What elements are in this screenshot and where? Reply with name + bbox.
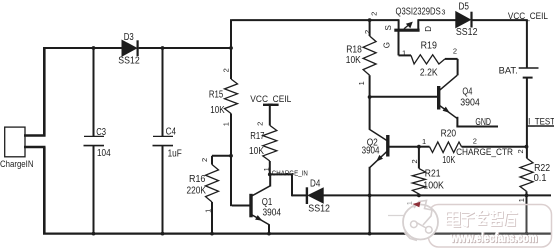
junction <box>210 232 214 236</box>
svg-text:2: 2 <box>370 12 379 16</box>
junction <box>368 95 372 99</box>
svg-text:220K: 220K <box>187 185 207 196</box>
capacitor C3 <box>84 135 104 137</box>
wire upper rail to Q3 source <box>232 19 399 21</box>
svg-text:10K: 10K <box>442 155 455 166</box>
wire C4 top <box>162 47 164 136</box>
wire Q2 base to R20/R21 node <box>388 146 420 148</box>
svg-text:S: S <box>384 25 393 30</box>
svg-text:2: 2 <box>453 47 457 56</box>
wire CHARGE_IN horizontal <box>269 173 293 175</box>
junction <box>368 18 372 22</box>
wire R17 bottom to CHARGE_IN node <box>269 161 271 175</box>
diode D3 <box>122 40 137 56</box>
junction <box>161 232 165 236</box>
wire R16 top stub <box>211 156 213 165</box>
wire R21 top stub <box>418 147 420 169</box>
transistor Q3 P-MOSFET body <box>394 29 419 32</box>
svg-text:Q4: Q4 <box>462 86 472 97</box>
wire Q3 gate to R19 <box>399 54 412 56</box>
junction <box>268 173 272 177</box>
svg-text:CHARGE_IN: CHARGE_IN <box>272 168 308 177</box>
svg-text:SS12: SS12 <box>308 204 330 215</box>
diode D5 <box>456 12 471 28</box>
wire R19 to Q4 collector <box>457 59 459 75</box>
svg-text:2: 2 <box>516 149 525 153</box>
wire top-left rail segment A <box>43 47 122 49</box>
wire C3 top <box>93 47 95 136</box>
svg-text:C4: C4 <box>166 126 177 137</box>
wire R15 bottom down to Q1 base <box>230 114 232 207</box>
svg-text:SS12: SS12 <box>456 27 478 38</box>
wire Q1 base <box>232 205 250 207</box>
junction <box>161 46 165 50</box>
svg-text:R18: R18 <box>346 44 362 55</box>
watermark logo circle <box>403 205 438 240</box>
svg-text:1: 1 <box>357 81 366 85</box>
diode D4 <box>306 187 308 204</box>
wire battery down through I_TEST to R22 <box>526 78 528 158</box>
wire connector pin2 stub <box>24 146 46 149</box>
svg-text:3904: 3904 <box>263 208 282 219</box>
svg-text:D3: D3 <box>124 32 134 43</box>
svg-text:2: 2 <box>222 68 231 72</box>
wire R19 right <box>445 58 458 60</box>
svg-text:1: 1 <box>222 122 231 126</box>
svg-text:SS12: SS12 <box>118 55 140 66</box>
wire C4 bottom to rail <box>162 146 164 235</box>
svg-text:D: D <box>424 26 433 32</box>
wire bottom ground rail <box>43 233 551 235</box>
junction <box>267 232 271 236</box>
svg-text:C3: C3 <box>96 127 106 138</box>
svg-text:R20: R20 <box>441 129 457 140</box>
junction <box>229 46 233 50</box>
svg-text:G: G <box>382 42 391 48</box>
junction <box>417 194 421 198</box>
svg-text:3904: 3904 <box>460 98 480 109</box>
wire connector pin2 vertical to bottom rail <box>43 147 46 235</box>
wire R16 bottom to rail <box>211 202 213 235</box>
wire D5 cathode to VCC_CEIL corner <box>473 19 528 21</box>
power port bar GND <box>456 126 498 128</box>
transistor Q4 2N3904 <box>437 86 440 110</box>
svg-text:R16: R16 <box>189 174 206 185</box>
junction <box>229 154 233 158</box>
svg-text:10K: 10K <box>249 146 264 157</box>
junction <box>525 232 529 236</box>
wire Q3 gate down <box>398 30 400 55</box>
svg-text:104: 104 <box>97 148 111 159</box>
junction <box>92 232 96 236</box>
svg-text:2: 2 <box>410 159 419 163</box>
svg-text:1: 1 <box>517 198 526 202</box>
svg-text:2: 2 <box>473 136 477 145</box>
watermark elecfans box <box>429 205 552 248</box>
resistor R18 <box>363 36 376 75</box>
wire Q4 emitter drop to GND port <box>456 117 458 127</box>
svg-text:10K: 10K <box>346 55 361 66</box>
watermark stray line <box>388 215 410 217</box>
svg-text:1: 1 <box>405 201 414 205</box>
svg-text:R15: R15 <box>209 89 224 100</box>
resistor R16 <box>206 165 219 203</box>
svg-text:2.2K: 2.2K <box>420 67 438 78</box>
wire connector pin1 stub <box>24 134 46 137</box>
svg-text:BAT.: BAT. <box>499 65 518 76</box>
wire connector pin1 vertical to top rail <box>43 47 46 136</box>
wire C3 bottom to rail <box>93 146 95 235</box>
wire VCC_CEIL down to battery <box>526 20 528 67</box>
svg-text:R19: R19 <box>421 40 438 51</box>
svg-text:R17: R17 <box>250 131 265 142</box>
wire Q1 collector up to CHARGE_IN node <box>269 174 271 187</box>
wire Q3 drain to D5 <box>418 19 456 21</box>
wire Q1 emitter to rail <box>268 224 270 234</box>
svg-text:3904: 3904 <box>362 145 380 156</box>
power port bar VCC_CEIL (left) <box>263 104 279 106</box>
battery BAT. <box>519 67 539 69</box>
wire R15 top (from upper rail through junction) <box>230 19 232 79</box>
wire Q2 emitter to bottom rail <box>369 195 371 235</box>
junction <box>368 232 372 236</box>
svg-text:CHARGE_CTR: CHARGE_CTR <box>456 147 513 158</box>
wire node to Q4 base <box>370 96 437 98</box>
svg-text:VCC_CEIL: VCC_CEIL <box>250 94 291 105</box>
svg-text:I_TEST: I_TEST <box>528 116 554 126</box>
svg-text:ChargeIN: ChargeIN <box>0 159 34 169</box>
svg-text:1uF: 1uF <box>168 148 182 159</box>
wire to D4 cathode <box>292 194 307 196</box>
wire R22 bottom through ground row to rail <box>526 191 528 234</box>
svg-text:D4: D4 <box>310 179 321 190</box>
resistor R21 <box>412 168 425 194</box>
transistor Q1 2N3904 <box>249 194 252 218</box>
svg-text:www.elecfans.com: www.elecfans.com <box>450 231 537 245</box>
junction <box>368 194 372 198</box>
net label bar I_TEST <box>527 125 554 127</box>
svg-text:2: 2 <box>363 30 372 34</box>
wire CHARGE_IN down to D4 <box>291 174 293 196</box>
svg-text:R21: R21 <box>425 169 441 180</box>
resistor R17 <box>263 125 277 161</box>
wire CHARGE_CTR to right column <box>462 146 528 148</box>
wire ground-row from D4 to right edge <box>323 194 551 196</box>
svg-text:1: 1 <box>203 209 212 213</box>
junction <box>525 194 529 198</box>
junction <box>525 145 529 149</box>
svg-text:D5: D5 <box>459 2 470 13</box>
watermark text dianzi fashaoyou <box>447 211 518 227</box>
wire junction to R16 <box>212 155 232 157</box>
svg-text:2: 2 <box>200 158 209 162</box>
capacitor C4 <box>153 135 173 137</box>
svg-text:Q1: Q1 <box>262 197 273 208</box>
transistor Q2 2N3904 <box>386 135 389 157</box>
svg-text:3: 3 <box>442 10 446 17</box>
resistor R20 <box>430 142 462 153</box>
wire R18 top stub <box>369 19 371 36</box>
junction <box>417 145 421 149</box>
resistor R22 <box>520 158 533 191</box>
svg-text:0.1: 0.1 <box>534 173 547 184</box>
svg-text:Q3SI2329DS: Q3SI2329DS <box>396 7 441 18</box>
wire top-left rail segment B <box>139 47 232 49</box>
wire R17 top stub <box>269 105 271 126</box>
resistor R15 <box>225 79 238 114</box>
junction <box>92 46 96 50</box>
wire R18 bottom to Q2 collector <box>369 75 371 130</box>
connector J ChargeIN <box>5 127 25 157</box>
wire Q2 emitter down <box>369 167 371 197</box>
svg-text:100K: 100K <box>423 181 444 192</box>
resistor R19 <box>411 55 445 64</box>
svg-text:2: 2 <box>256 122 265 126</box>
svg-text:10K: 10K <box>210 105 225 116</box>
svg-text:1: 1 <box>402 48 406 57</box>
svg-text:1: 1 <box>422 137 426 146</box>
